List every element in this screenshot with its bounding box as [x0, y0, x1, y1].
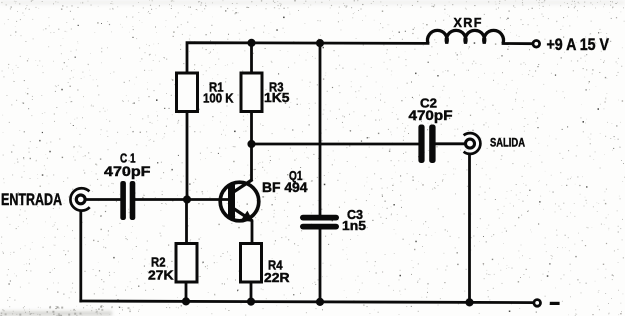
wire R1 bottom lead to base junction [186, 111, 189, 199]
node junction top rail / R3 [247, 39, 255, 47]
wire ENTRADA to C1 [87, 198, 121, 201]
wire base junction to Q1 base [187, 198, 229, 201]
resistor R4 [241, 244, 262, 283]
wire R2 bottom lead [185, 282, 188, 301]
connector SALIDA jack [464, 133, 481, 154]
svg-text:470pF: 470pF [409, 108, 453, 123]
wire C1 to base junction [136, 198, 188, 201]
svg-text:SALIDA: SALIDA [490, 136, 525, 150]
svg-text:BF 494: BF 494 [262, 180, 308, 195]
svg-text:ENTRADA: ENTRADA [1, 191, 62, 209]
node junction bottom rail / R2 [182, 297, 190, 305]
svg-text:XRF: XRF [454, 16, 483, 30]
wire bottom rail [81, 301, 533, 303]
node junction bottom rail / R4 [247, 298, 255, 306]
minus sign label [550, 302, 560, 305]
svg-text:+9 A 15 V: +9 A 15 V [547, 36, 610, 54]
svg-text:1K5: 1K5 [264, 90, 290, 105]
wire C3 bottom lead [319, 230, 322, 302]
resistor R2 [176, 244, 197, 283]
node junction bottom rail / C3 [316, 298, 324, 306]
wire R3 top lead [250, 43, 253, 74]
capacitor C2 [418, 125, 435, 164]
node junction base / C1 / R1 / R2 [183, 195, 191, 203]
terminal negative [534, 300, 541, 307]
wire R3 bottom lead to collector [250, 111, 253, 179]
svg-text:100 K: 100 K [203, 91, 234, 106]
svg-text:1n5: 1n5 [342, 218, 366, 233]
wire vertical net from top rail to C3 top plate [319, 43, 322, 215]
wire XRF right lead to +9V terminal [503, 42, 533, 45]
transistor Q1 [220, 180, 259, 223]
connector ENTRADA jack [70, 188, 89, 210]
wire ENTRADA shell down lead [79, 212, 82, 301]
node junction bottom rail / SALIDA shell [465, 298, 473, 306]
wire R4 bottom lead [250, 282, 253, 302]
node junction collector [247, 140, 255, 148]
wire Q1 emitter lead to R4 [251, 222, 254, 245]
node junction top rail / C3 net [316, 39, 324, 47]
svg-text:22R: 22R [264, 270, 290, 285]
svg-text:27K: 27K [148, 268, 174, 283]
inductor XRF [427, 30, 503, 43]
resistor R1 [177, 73, 198, 112]
wire C2 to SALIDA [436, 142, 465, 145]
wire R2 top lead [185, 200, 188, 245]
wire SALIDA shell to bottom rail [468, 155, 471, 303]
terminal +9..15V supply [533, 41, 540, 48]
resistor R3 [241, 73, 262, 112]
capacitor C3 [300, 215, 339, 230]
capacitor C1 [120, 181, 135, 220]
svg-text:470pF: 470pF [104, 164, 151, 179]
wire top rail from R1 column to XRF [187, 43, 428, 74]
wire collector node to C2 [252, 143, 420, 146]
